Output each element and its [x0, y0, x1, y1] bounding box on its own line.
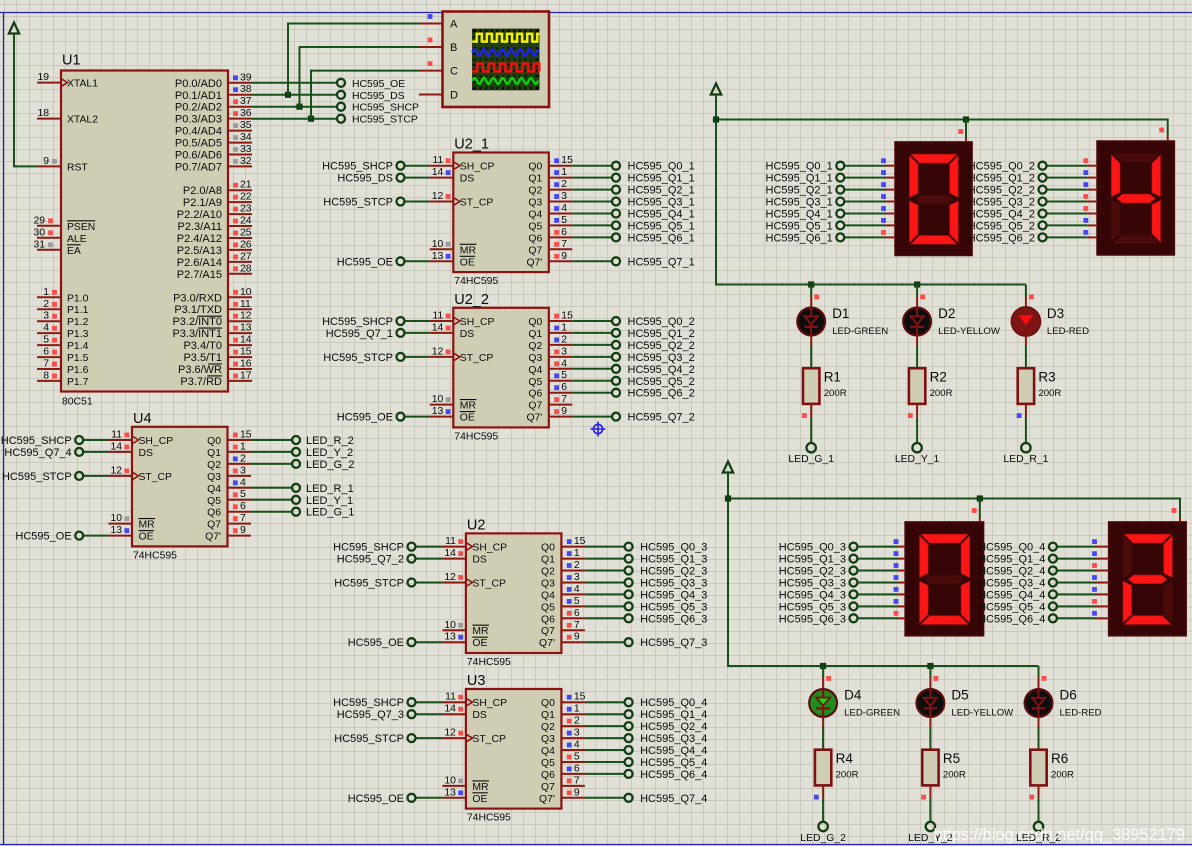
terminal HC595_Q4_1 [612, 209, 695, 221]
U1 pin 16 P3.6/WR [178, 359, 252, 377]
wire HC595_Q6_1 to display 6SEG-1 [844, 236, 895, 238]
svg-text:HC595_Q1_1: HC595_Q1_1 [628, 173, 695, 185]
terminal HC595_Q0_1 [766, 161, 845, 173]
svg-text:200R: 200R [824, 388, 847, 399]
svg-text:Q7: Q7 [541, 626, 555, 637]
svg-text:HC595_STCP: HC595_STCP [2, 471, 72, 483]
svg-text:3: 3 [574, 572, 580, 583]
terminal HC595_SHCP [337, 103, 419, 114]
svg-text:HC595_Q5_1: HC595_Q5_1 [766, 220, 833, 232]
svg-text:HC595_Q0_4: HC595_Q0_4 [978, 542, 1045, 554]
U2_1 pin 11 [430, 155, 454, 166]
terminal HC595_Q1_1 [766, 173, 845, 185]
svg-text:14: 14 [240, 335, 252, 346]
U2 pin 2 [561, 560, 585, 571]
svg-text:HC595_Q1_4: HC595_Q1_4 [978, 554, 1045, 566]
power symbol VCC displays group 2 [723, 462, 733, 473]
terminal HC595_Q4_4 [978, 589, 1057, 601]
svg-text:LED_Y_1: LED_Y_1 [895, 454, 940, 465]
terminal LED_R_1 [292, 483, 354, 495]
svg-text:Q5: Q5 [528, 377, 542, 388]
svg-text:R5: R5 [943, 751, 960, 766]
U3 pin 1 [561, 704, 585, 715]
wire HC595_Q2_3 to display 6SEG-3 [858, 570, 906, 572]
U2_2 pin 10 [430, 394, 454, 405]
svg-text:P0.4/AD4: P0.4/AD4 [175, 126, 222, 138]
U1 pin 29 PSEN [33, 215, 95, 233]
svg-text:25: 25 [240, 228, 252, 239]
junction D2 column [914, 281, 920, 287]
U2 pin 1 [561, 548, 585, 559]
wire HC595_Q3_2 to display 6SEG-2 [1047, 201, 1098, 203]
display 6SEG-4 segment state indicator 6 [1092, 611, 1097, 616]
U2_2 pin 5 [549, 370, 573, 381]
svg-text:https://blog.csdn.net/qq_38952: https://blog.csdn.net/qq_38952179 [933, 826, 1185, 844]
svg-text:12: 12 [432, 346, 444, 357]
display 6SEG-1 segment state indicator 1 [881, 170, 886, 175]
svg-text:HC595_Q6_1: HC595_Q6_1 [628, 232, 695, 244]
junction node on HC595_SHCP wire [296, 104, 302, 110]
svg-text:LED_G_2: LED_G_2 [306, 459, 354, 471]
terminal HC595_Q6_2 [612, 388, 695, 400]
svg-text:15: 15 [240, 430, 252, 441]
svg-text:SH_CP: SH_CP [139, 436, 174, 447]
terminal HC595_Q3_2 [612, 352, 695, 364]
U1 pin 24 P2.3/A11 [178, 216, 252, 234]
scope trace channel B blue [472, 49, 538, 56]
svg-text:3: 3 [561, 191, 567, 202]
resistor R6 200R [1030, 750, 1074, 786]
svg-text:HC595_Q4_1: HC595_Q4_1 [628, 209, 695, 221]
wire HC595_SHCP to U2 [416, 546, 443, 548]
junction D1 column [808, 281, 814, 287]
U1 pin 1 P1.0 [37, 287, 89, 305]
wire U2_2 Q to HC595_Q7_2 [572, 416, 612, 418]
svg-text:2: 2 [240, 453, 246, 464]
wire rail to LED D3 [1025, 285, 1027, 308]
indicator below resistor R4 [814, 795, 819, 800]
svg-text:OE: OE [460, 413, 475, 424]
svg-text:MR: MR [472, 626, 489, 637]
svg-text:14: 14 [432, 322, 444, 333]
terminal HC595_Q2_3 [779, 566, 858, 578]
svg-text:16: 16 [240, 359, 252, 370]
LED D5 LED-YELLOW [917, 688, 1015, 719]
U3 pin 10 [442, 775, 466, 786]
svg-text:LED-RED: LED-RED [1047, 326, 1089, 337]
svg-text:DS: DS [139, 448, 154, 459]
wire U2_1 Q to HC595_Q6_1 [572, 236, 612, 238]
U1 pin 32 P0.7/AD7 [175, 156, 252, 174]
wire U3 Q to HC595_Q2_4 [585, 725, 625, 727]
junction display 3 supply [977, 495, 983, 501]
svg-text:U2_1: U2_1 [454, 137, 489, 153]
svg-text:HC595_Q6_3: HC595_Q6_3 [640, 613, 707, 625]
U1 pin 36 P0.3/AD3 [175, 108, 252, 126]
wire HC595_SHCP to U3 [416, 701, 443, 703]
svg-text:MR: MR [472, 782, 489, 793]
svg-text:13: 13 [432, 406, 444, 417]
wire U2 Q to HC595_Q1_3 [585, 558, 625, 560]
svg-text:HC595_Q0_3: HC595_Q0_3 [779, 542, 846, 554]
U1 pin 39 P0.0/AD0 [175, 72, 252, 90]
svg-text:30: 30 [33, 227, 45, 238]
svg-text:HC595_Q0_1: HC595_Q0_1 [628, 161, 695, 173]
LED D2 LED-YELLOW [903, 306, 1001, 337]
svg-text:Q7': Q7' [526, 413, 542, 424]
terminal HC595_Q6_3 [779, 613, 858, 625]
terminal HC595_Q7_3 [337, 709, 416, 721]
indicator display 4 supply [1172, 508, 1177, 513]
svg-text:P0.2/AD2: P0.2/AD2 [175, 102, 222, 114]
svg-text:27: 27 [240, 251, 252, 262]
svg-text:C: C [450, 66, 458, 78]
wire U2_1 Q to HC595_Q4_1 [572, 213, 612, 215]
U2_1 pin 12 [430, 191, 454, 202]
U2_1 pin 13 [430, 251, 454, 262]
svg-text:15: 15 [240, 347, 252, 358]
svg-text:Q0: Q0 [207, 436, 221, 447]
wire HC595_SHCP to U2_1 [405, 165, 430, 167]
wire VCC rail group 2 vertical [727, 473, 729, 667]
svg-text:5: 5 [43, 335, 49, 346]
svg-text:14: 14 [444, 548, 456, 559]
wire U4 Q to LED_Y_1 [251, 499, 292, 501]
terminal HC595_Q7_2 [612, 412, 695, 424]
svg-text:Q2: Q2 [541, 722, 555, 733]
U4 pin 12 [109, 465, 133, 476]
junction display 1 supply [963, 116, 969, 122]
resistor R2 200R [909, 368, 953, 404]
wire HC595_Q2_1 to display 6SEG-1 [844, 189, 895, 191]
svg-text:Q5: Q5 [541, 602, 555, 613]
terminal HC595_Q4_3 [625, 589, 708, 601]
svg-text:10: 10 [432, 394, 444, 405]
indicator above LED D4 [826, 676, 831, 681]
display 6SEG-3 segment state indicator 5 [894, 599, 899, 604]
wire LED D5 to resistor R5 [929, 717, 931, 750]
svg-text:Q7': Q7' [205, 532, 221, 543]
svg-text:D2: D2 [938, 306, 955, 321]
wire U3 Q to HC595_Q1_4 [585, 713, 625, 715]
svg-text:15: 15 [574, 692, 586, 703]
terminal HC595_Q6_4 [625, 769, 708, 781]
svg-text:DS: DS [460, 329, 475, 340]
U2_1 pin 9 [549, 251, 573, 262]
U3 pin 12 [442, 728, 466, 739]
svg-text:HC595_Q4_1: HC595_Q4_1 [766, 209, 833, 221]
U4 pin 4 [228, 477, 252, 488]
svg-text:HC595_STCP: HC595_STCP [323, 197, 393, 209]
svg-text:10: 10 [444, 775, 456, 786]
svg-text:3: 3 [561, 346, 567, 357]
terminal HC595_Q5_1 [766, 220, 845, 232]
svg-text:14: 14 [432, 167, 444, 178]
wire U2_1 Q to HC595_Q7_1 [572, 260, 612, 262]
svg-text:HC595_Q7_2: HC595_Q7_2 [337, 554, 404, 566]
svg-text:12: 12 [110, 465, 122, 476]
svg-text:2: 2 [574, 716, 580, 727]
svg-text:HC595_Q2_3: HC595_Q2_3 [640, 566, 707, 578]
U2_1 pin 7 [549, 239, 573, 250]
U3 pin 13 [442, 787, 466, 798]
wire U3 Q to HC595_Q6_4 [585, 773, 625, 775]
wire HC595_STCP to U4 [83, 475, 108, 477]
terminal HC595_Q6_4 [978, 613, 1057, 625]
wire U2_2 Q to HC595_Q4_2 [572, 368, 612, 370]
svg-text:1: 1 [43, 287, 49, 298]
U1 pin 8 P1.7 [37, 370, 89, 388]
svg-text:HC595_Q7_3: HC595_Q7_3 [640, 637, 707, 649]
terminal HC595_STCP [334, 733, 415, 745]
svg-text:Q1: Q1 [541, 710, 555, 721]
terminal HC595_Q7_2 [337, 554, 416, 566]
indicator below resistor R3 [1017, 413, 1022, 418]
svg-text:Q7: Q7 [528, 245, 542, 256]
svg-text:HC595_SHCP: HC595_SHCP [352, 103, 419, 114]
U2_1 pin 10 [430, 239, 454, 250]
oscilloscope pin A [419, 14, 458, 30]
terminal HC595_Q5_2 [612, 376, 695, 388]
svg-text:Q6: Q6 [528, 233, 542, 244]
svg-text:2: 2 [43, 299, 49, 310]
svg-text:OE: OE [139, 532, 154, 543]
wire HC595_OE to U2 [416, 641, 443, 643]
svg-text:HC595_Q0_4: HC595_Q0_4 [640, 697, 707, 709]
terminal HC595_OE [337, 412, 405, 424]
wire rail to LED D4 [822, 666, 824, 689]
svg-text:Q3: Q3 [528, 353, 542, 364]
svg-text:HC595_SHCP: HC595_SHCP [333, 697, 404, 709]
wire HC595_STCP to U2_2 [405, 356, 430, 358]
svg-text:2: 2 [561, 334, 567, 345]
U4 pin 1 [228, 441, 252, 452]
terminal HC595_SHCP [333, 542, 415, 554]
svg-text:HC595_STCP: HC595_STCP [334, 578, 404, 590]
svg-text:4: 4 [240, 477, 246, 488]
U3 pin 7 [561, 775, 585, 786]
svg-text:4: 4 [43, 323, 49, 334]
terminal HC595_Q0_3 [625, 542, 708, 554]
svg-text:P1.7: P1.7 [67, 377, 89, 388]
svg-text:HC595_Q5_1: HC595_Q5_1 [628, 220, 695, 232]
svg-text:32: 32 [240, 156, 252, 167]
U2 pin 6 [561, 608, 585, 619]
terminal LED_Y_2 [908, 822, 953, 844]
svg-text:P1.3: P1.3 [67, 329, 89, 340]
svg-text:Q3: Q3 [541, 734, 555, 745]
terminal HC595_Q1_4 [978, 554, 1057, 566]
display 6SEG-1 segment state indicator 5 [881, 218, 886, 223]
svg-text:HC595_STCP: HC595_STCP [323, 352, 393, 364]
wire VCC rail group 1 vertical [715, 95, 717, 285]
7-segment display 6SEG-2 [1097, 141, 1174, 255]
terminal HC595_OE [337, 79, 405, 90]
svg-text:6: 6 [561, 227, 567, 238]
LED D3 LED-RED [1011, 306, 1089, 337]
svg-text:OE: OE [472, 794, 487, 805]
svg-text:13: 13 [110, 525, 122, 536]
svg-text:HC595_Q0_2: HC595_Q0_2 [968, 161, 1035, 173]
svg-text:Q1: Q1 [207, 448, 221, 459]
indicator below resistor R6 [1029, 795, 1034, 800]
svg-text:HC595_Q1_1: HC595_Q1_1 [766, 173, 833, 185]
svg-text:1: 1 [240, 441, 246, 452]
U2_1 pin 15 [549, 155, 573, 166]
wire HC595_Q3_4 to display 6SEG-4 [1057, 582, 1109, 584]
terminal LED_Y_2 [292, 447, 353, 459]
svg-text:LED_R_1: LED_R_1 [306, 483, 354, 495]
terminal HC595_Q1_3 [779, 554, 858, 566]
svg-text:P2.3/A11: P2.3/A11 [178, 221, 222, 233]
svg-text:74HC595: 74HC595 [133, 550, 177, 561]
U1 pin 35 P0.4/AD4 [175, 120, 252, 138]
svg-text:P3.0/RXD: P3.0/RXD [173, 292, 222, 304]
svg-text:HC595_Q7_1: HC595_Q7_1 [326, 328, 393, 340]
oscilloscope pin B [419, 38, 457, 54]
indicator display 2 supply [1159, 128, 1164, 133]
svg-text:14: 14 [110, 441, 122, 452]
svg-text:HC595_Q5_2: HC595_Q5_2 [968, 220, 1035, 232]
svg-text:200R: 200R [836, 770, 859, 781]
svg-text:OE: OE [472, 638, 487, 649]
svg-text:MR: MR [460, 401, 477, 412]
svg-text:D6: D6 [1060, 688, 1077, 703]
terminal HC595_STCP [2, 471, 83, 483]
svg-text:P3.7/RD: P3.7/RD [180, 376, 222, 388]
svg-text:D4: D4 [844, 688, 862, 703]
svg-text:33: 33 [240, 144, 252, 155]
power symbol VCC top-left [9, 23, 19, 34]
svg-text:36: 36 [240, 108, 252, 119]
display 6SEG-4 segment state indicator 5 [1092, 599, 1097, 604]
svg-text:9: 9 [561, 406, 567, 417]
display 6SEG-3 segment state indicator 0 [894, 539, 899, 544]
wire HC595_Q4_1 to display 6SEG-1 [844, 213, 895, 215]
svg-text:Q4: Q4 [207, 484, 221, 495]
terminal LED_G_2 [292, 459, 354, 471]
svg-text:HC595_Q4_3: HC595_Q4_3 [640, 589, 707, 601]
svg-text:P0.0/AD0: P0.0/AD0 [175, 78, 222, 90]
wire HC595_Q1_3 to display 6SEG-3 [858, 558, 906, 560]
svg-text:ALE: ALE [67, 234, 87, 245]
wire HC595_Q2_2 to display 6SEG-2 [1047, 189, 1098, 191]
svg-text:Q1: Q1 [528, 329, 542, 340]
U1 pin 22 P2.1/A9 [183, 192, 252, 210]
svg-text:200R: 200R [943, 770, 966, 781]
svg-text:HC595_SHCP: HC595_SHCP [322, 161, 393, 173]
wire HC595_OE to U4 [83, 535, 108, 537]
svg-text:Q5: Q5 [207, 496, 221, 507]
svg-text:HC595_Q1_2: HC595_Q1_2 [968, 173, 1035, 185]
svg-text:35: 35 [240, 120, 252, 131]
wire resistor R5 to terminal LED_Y_2 [929, 785, 931, 821]
wire U4 Q to LED_R_1 [251, 487, 292, 489]
wire HC595_SHCP to U4 [83, 439, 108, 441]
indicator above LED D5 [934, 676, 939, 681]
terminal HC595_OE [348, 637, 416, 649]
display 6SEG-2 segment state indicator 0 [1083, 158, 1088, 163]
wire U4 Q to LED_G_2 [251, 463, 292, 465]
terminal HC595_Q4_2 [612, 364, 695, 376]
svg-text:5: 5 [561, 370, 567, 381]
svg-text:P3.6/WR: P3.6/WR [178, 364, 222, 376]
svg-text:HC595_Q5_4: HC595_Q5_4 [978, 601, 1045, 613]
svg-text:LED-YELLOW: LED-YELLOW [938, 326, 1001, 337]
wire HC595_Q7_2 to U2 [416, 558, 443, 560]
svg-text:HC595_Q6_4: HC595_Q6_4 [978, 613, 1045, 625]
terminal HC595_Q6_1 [766, 232, 845, 244]
U2 pin 4 [561, 584, 585, 595]
svg-text:D: D [450, 90, 458, 102]
svg-text:HC595_Q4_2: HC595_Q4_2 [968, 209, 1035, 221]
svg-text:R3: R3 [1038, 370, 1055, 385]
svg-text:9: 9 [43, 156, 49, 167]
indicator below resistor R5 [921, 795, 926, 800]
svg-text:HC595_Q7_2: HC595_Q7_2 [628, 412, 695, 424]
svg-text:U2: U2 [467, 517, 486, 533]
svg-text:74HC595: 74HC595 [454, 431, 498, 442]
display 6SEG-1 segment state indicator 2 [881, 182, 886, 187]
svg-text:HC595_SHCP: HC595_SHCP [1, 435, 72, 447]
svg-text:LED-RED: LED-RED [1060, 708, 1102, 719]
indicator above LED D2 [920, 295, 925, 300]
U1 pin 13 P3.3/INT1 [172, 323, 252, 341]
U2_2 pin 11 [430, 311, 454, 322]
svg-text:U4: U4 [133, 411, 152, 427]
U4 pin 11 [109, 430, 133, 441]
svg-text:Q3: Q3 [528, 198, 542, 209]
svg-text:HC595_Q5_2: HC595_Q5_2 [628, 376, 695, 388]
display 6SEG-2 segment state indicator 6 [1083, 230, 1088, 235]
U3 pin 14 [442, 704, 466, 715]
wire HC595_Q5_3 to display 6SEG-3 [858, 605, 906, 607]
svg-text:ST_CP: ST_CP [460, 353, 494, 364]
U2_1 pin 14 [430, 167, 454, 178]
wire HC595_Q5_4 to display 6SEG-4 [1057, 605, 1109, 607]
wire HC595_STCP to U3 [416, 737, 443, 739]
svg-text:P2.1/A9: P2.1/A9 [183, 197, 222, 209]
terminal HC595_Q1_1 [612, 173, 695, 185]
wire HC595_Q1_1 to display 6SEG-1 [844, 177, 895, 179]
U4 pin 5 [228, 489, 252, 500]
svg-text:37: 37 [240, 96, 252, 107]
wire U3 Q to HC595_Q3_4 [585, 737, 625, 739]
wire U2_2 Q to HC595_Q2_2 [572, 344, 612, 346]
U4 pin 10 [109, 513, 133, 524]
svg-text:7: 7 [561, 239, 567, 250]
wire HC595_Q6_4 to display 6SEG-4 [1057, 617, 1109, 619]
U2 pin 14 [442, 548, 466, 559]
svg-text:P0.3/AD3: P0.3/AD3 [175, 114, 222, 126]
svg-text:Q0: Q0 [528, 162, 542, 173]
terminal HC595_Q4_2 [968, 209, 1047, 221]
U2 pin 11 [442, 536, 466, 547]
wire U2 Q to HC595_Q3_3 [585, 582, 625, 584]
svg-text:39: 39 [240, 72, 252, 83]
U1 pin 12 P3.2/INT0 [172, 311, 252, 329]
U1 pin 10 P3.0/RXD [173, 287, 252, 305]
svg-text:HC595_Q4_4: HC595_Q4_4 [978, 589, 1045, 601]
svg-text:EA: EA [67, 246, 81, 257]
U1 pin 37 P0.2/AD2 [175, 96, 252, 114]
wire rail to LED D2 [916, 285, 918, 308]
display 6SEG-1 segment state indicator 4 [881, 206, 886, 211]
U1 pin 30 ALE [33, 227, 86, 245]
wire VCC rail to displays 1-2 [716, 119, 1168, 121]
wire rail to LED D5 [929, 666, 931, 689]
wire HC595_Q4_2 to display 6SEG-2 [1047, 213, 1098, 215]
